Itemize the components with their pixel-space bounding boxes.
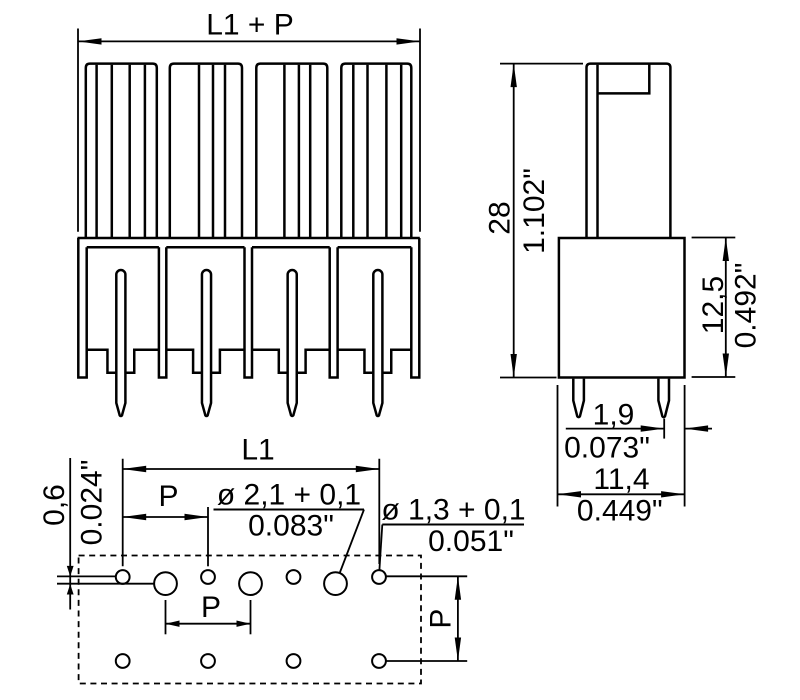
front view cavity 4 bottom with notch [338, 350, 374, 373]
dimension 1,9 outside arrow [685, 428, 712, 430]
front view cavity 2 bottom with notch [166, 350, 202, 373]
svg-text:0.073": 0.073" [564, 432, 650, 465]
front view pole block 1 [86, 64, 157, 238]
svg-text:11,4: 11,4 [593, 463, 649, 496]
solder pin 3 front view [288, 270, 297, 416]
dimension 28 extension bottom [500, 377, 557, 379]
dimension 0,6 lower reference line [57, 583, 154, 585]
svg-text:1.102": 1.102" [518, 168, 551, 254]
side view mating tower [587, 64, 671, 238]
dimension 11,4 extension right [684, 385, 686, 507]
front view left end wall [78, 238, 86, 378]
svg-text:P: P [201, 591, 221, 624]
dimension 0,6 upper reference line [57, 575, 115, 577]
front view right end wall [411, 238, 419, 378]
small hole bottom row 1 [116, 654, 130, 668]
svg-text:1,9: 1,9 [593, 399, 635, 432]
PCB outline dashed [79, 556, 421, 684]
svg-text:28: 28 [484, 201, 517, 234]
solder pin 4 front view [373, 270, 382, 416]
front view slot 3 between cavities [330, 247, 338, 377]
dimension 12,5 extension top [692, 237, 736, 239]
dimension P mid line [166, 623, 251, 625]
dimension P right extension top [386, 575, 467, 577]
svg-text:0.083": 0.083" [248, 510, 334, 543]
svg-text:P: P [424, 609, 457, 629]
large hole 1 [154, 572, 177, 595]
side view tower top latch notch [599, 64, 650, 93]
dimension P mid extension left [165, 600, 167, 634]
small hole top row 3 [287, 570, 301, 584]
svg-text:12,5: 12,5 [697, 276, 730, 334]
dia 1,3 underline [382, 524, 524, 526]
dimension L1+P extension line right [419, 29, 421, 232]
dimension 1,9 tick at pin center [663, 419, 665, 439]
dimension 12,5 extension bottom [692, 376, 736, 378]
svg-text:0.051": 0.051" [428, 525, 514, 558]
side view base body [559, 238, 685, 378]
dimension 28 extension top [500, 63, 583, 65]
dimension P right line [457, 576, 459, 661]
front view pole block 2 [170, 64, 242, 238]
dimension L1 line [123, 468, 380, 470]
svg-text:0.024": 0.024" [76, 460, 109, 546]
small hole top row 4 [372, 570, 386, 584]
svg-text:ø 2,1 + 0,1: ø 2,1 + 0,1 [217, 479, 361, 512]
small hole bottom row 2 [201, 654, 215, 668]
svg-text:ø 1,3 + 0,1: ø 1,3 + 0,1 [381, 494, 525, 527]
dimension 12,5 line [725, 238, 727, 378]
front view cavity 1 top edge [87, 246, 159, 249]
dimension P mid extension right [250, 600, 252, 634]
dia 2,1 underline [214, 509, 365, 511]
dimension L1+P extension line left [77, 29, 79, 232]
front view slot 2 between cavities [245, 247, 253, 377]
dimension P right extension bottom [385, 660, 467, 662]
dimension P top line [123, 516, 208, 518]
front view base top edge [78, 237, 420, 240]
svg-text:L1: L1 [241, 434, 274, 467]
svg-text:0,6: 0,6 [38, 484, 71, 526]
dimension 1,9 leader line [566, 428, 664, 430]
front view cavity 4 top edge [338, 246, 412, 249]
large hole 3 [324, 572, 347, 595]
small hole top row 2 [201, 570, 215, 584]
front view slot 1 between cavities [159, 247, 166, 377]
svg-text:0.449": 0.449" [577, 495, 663, 528]
small hole top row 1 [116, 570, 130, 584]
dimension L1 extension left [122, 459, 124, 567]
dimension 1,9 arrow right [641, 425, 665, 431]
dimension 11,4 extension left [557, 385, 559, 507]
large hole 2 [239, 572, 262, 595]
dimension L1 extension right [378, 459, 380, 564]
dia 1,3 leader [379, 525, 382, 571]
front view pole block 4 [341, 64, 411, 238]
svg-text:0.492": 0.492" [730, 263, 763, 349]
side view tower inner wall line [596, 65, 599, 237]
dimension 0,6 line [69, 458, 71, 610]
dimension 11,4 line [558, 493, 685, 495]
solder pin 1 front view [116, 270, 125, 416]
front view cavity 1 bottom with notch [87, 350, 117, 373]
front view cavity 3 top edge [252, 246, 330, 249]
solder pin side view 2 [658, 379, 669, 418]
dimension P top extension right [207, 507, 209, 566]
svg-text:P: P [158, 480, 178, 513]
svg-text:L1 + P: L1 + P [206, 9, 294, 42]
dimension L1+P line [78, 40, 420, 42]
small hole bottom row 3 [287, 654, 301, 668]
front view cavity 2 top edge [166, 246, 244, 249]
front view pole block 3 [256, 64, 327, 238]
solder pin 2 front view [202, 270, 211, 416]
solder pin side view 1 [573, 379, 584, 418]
front view cavity 3 bottom with notch [252, 350, 288, 373]
small hole bottom row 4 [372, 654, 386, 668]
dia 2,1 leader [340, 510, 365, 574]
dimension 28 line [513, 64, 515, 378]
